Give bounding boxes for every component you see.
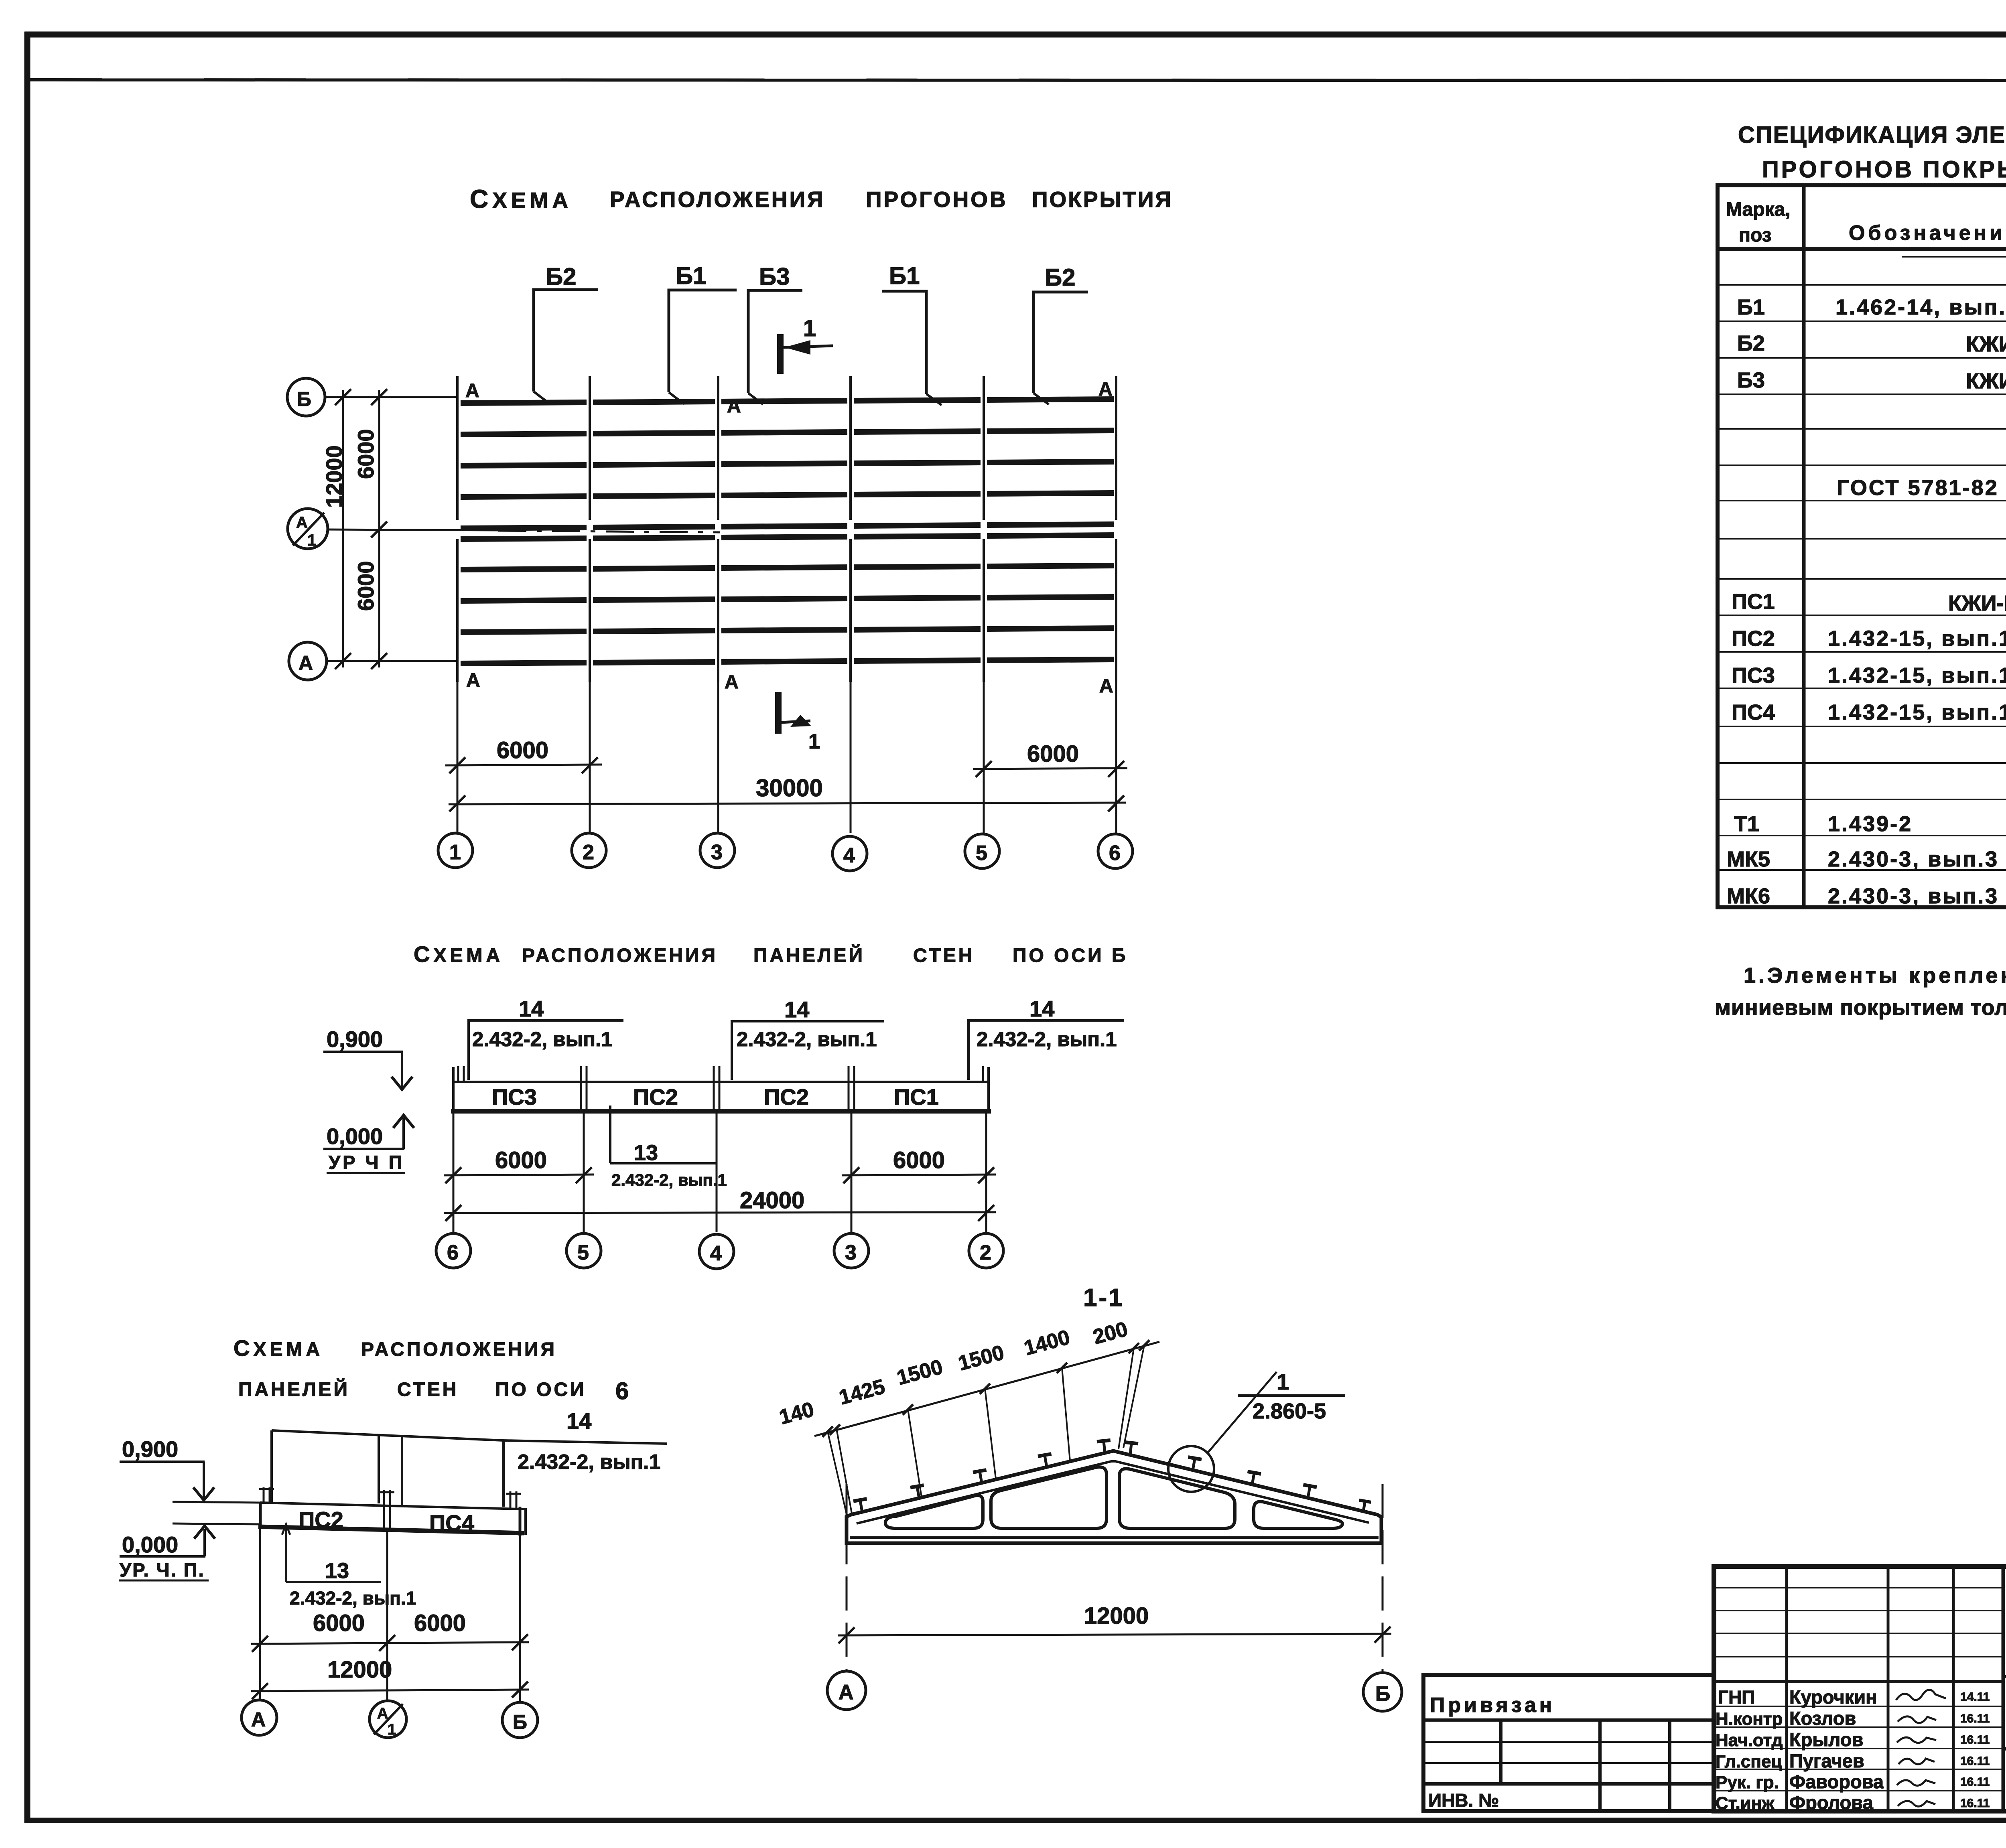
sloped dim ticks [822, 1340, 1149, 1437]
svg-text:4: 4 [710, 1242, 722, 1265]
node 13 leader [285, 1525, 287, 1582]
axis bubble B [502, 1702, 538, 1738]
axis stem 1 [457, 682, 459, 833]
svg-text:ПО ОСИ Б: ПО ОСИ Б [1013, 945, 1128, 966]
tb mid rule [2003, 1747, 2006, 1751]
bottom dim 6000 right [973, 768, 1127, 769]
svg-text:1: 1 [449, 841, 461, 864]
header bottom rule 2 [1902, 256, 2006, 258]
svg-text:14: 14 [784, 997, 809, 1022]
attachment rule under label [1423, 1718, 1714, 1722]
SEC:TITLEBLOCK [1423, 1566, 2006, 1813]
tb vertical persons [1785, 1566, 1788, 1811]
table outer box [1718, 185, 2006, 907]
svg-text:6000: 6000 [353, 561, 378, 611]
svg-text:Б: Б [1375, 1682, 1390, 1706]
tb staff area top [1714, 1680, 2003, 1683]
band right step [520, 1509, 526, 1535]
joint drop lines [260, 1528, 520, 1702]
svg-text:Б1: Б1 [676, 262, 707, 289]
svg-text:ПС3: ПС3 [492, 1084, 537, 1110]
svg-text:3: 3 [711, 841, 723, 864]
purlin row 6 [461, 535, 1114, 539]
band end left [259, 1503, 262, 1527]
svg-text:13: 13 [325, 1559, 349, 1583]
level line stub top [173, 1502, 260, 1503]
svg-text:3: 3 [845, 1241, 857, 1264]
header bottom rule [1718, 247, 2006, 251]
axis line A [327, 660, 456, 662]
svg-text:Обозначение: Обозначение [1849, 221, 2006, 245]
grid line axis 4 [849, 376, 852, 682]
grid line axis 2 [589, 376, 591, 682]
svg-text:ПС2: ПС2 [764, 1084, 809, 1110]
tb upper thin rows [1714, 1588, 2003, 1657]
axis line A1 dash-dot [328, 529, 498, 530]
svg-text:Н.контр: Н.контр [1716, 1709, 1783, 1729]
svg-text:30000: 30000 [756, 775, 823, 801]
svg-text:16.11: 16.11 [1960, 1797, 1990, 1810]
axis stem 6 [1115, 682, 1117, 833]
dim 24000 [444, 1212, 996, 1213]
svg-text:А: А [839, 1681, 854, 1704]
purlin row 1 [461, 399, 1114, 403]
purlin row 10 [461, 659, 1114, 663]
purlin mark B1 leader 2 [882, 291, 926, 394]
band end left [452, 1067, 455, 1112]
svg-text:поз: поз [1739, 225, 1772, 246]
axis bubble B [1363, 1673, 1402, 1711]
axis bubble A1 [370, 1701, 406, 1738]
svg-text:СХЕМА: СХЕМА [233, 1335, 323, 1361]
axis stem 5 [983, 682, 985, 833]
svg-text:2: 2 [583, 841, 594, 864]
SEC:ELEV6 [119, 1335, 667, 1738]
svg-text:СПЕЦИФИКАЦИЯ ЭЛЕМЕНТОВ К СХЕ: СПЕЦИФИКАЦИЯ ЭЛЕМЕНТОВ К СХЕМАМ РАСПОЛОЖ… [1738, 122, 2006, 148]
svg-text:12000: 12000 [321, 445, 347, 508]
svg-text:КЖИ-ПС1: КЖИ-ПС1 [1948, 591, 2006, 615]
svg-text:6000: 6000 [495, 1147, 547, 1173]
sloped dim line [814, 1342, 1159, 1436]
svg-text:Марка,: Марка, [1726, 199, 1791, 220]
svg-text:ПС2: ПС2 [298, 1507, 343, 1532]
svg-text:1.432-15, вып.1: 1.432-15, вып.1 [1828, 700, 2006, 724]
truss bottom chord inner line [850, 1536, 1379, 1539]
svg-text:1.462-14, вып.1: 1.462-14, вып.1 [1835, 295, 2006, 319]
joint posts right [506, 1491, 521, 1508]
svg-text:4: 4 [843, 844, 855, 867]
band end right [519, 1507, 522, 1536]
purlin row 4 [461, 493, 1114, 497]
dim 6000 pair [251, 1642, 529, 1644]
svg-text:6000: 6000 [893, 1147, 945, 1173]
svg-text:Фаворова: Фаворова [1789, 1771, 1884, 1792]
truss end drop lines [846, 1484, 848, 1670]
svg-text:СТЕН: СТЕН [913, 945, 975, 966]
svg-text:6: 6 [615, 1377, 629, 1404]
svg-text:СТЕН: СТЕН [397, 1379, 459, 1400]
section mark 1 bottom [775, 692, 782, 734]
svg-text:А: А [727, 396, 741, 417]
axis bubbles 6-2 [436, 1233, 471, 1268]
svg-text:А: А [466, 670, 480, 691]
detail circle [1168, 1446, 1214, 1492]
svg-text:ПРОГОНОВ ПОКРЫТИЯ, ПАНЕЛЕЙ: ПРОГОНОВ ПОКРЫТИЯ, ПАНЕЛЕЙ СТЕН [1762, 156, 2006, 183]
wall band bottom [451, 1109, 991, 1114]
svg-text:ПС4: ПС4 [429, 1510, 474, 1536]
top second rule [25, 80, 2006, 81]
svg-text:Нач.отд: Нач.отд [1716, 1730, 1783, 1750]
purlin rows [461, 399, 1114, 663]
SEC:TRUSS [777, 1284, 1402, 1711]
svg-text:Б3: Б3 [759, 263, 790, 290]
border bottom [24, 1818, 2006, 1823]
svg-text:12000: 12000 [1084, 1603, 1149, 1629]
svg-text:2.432-2, вып.1: 2.432-2, вып.1 [472, 1028, 613, 1051]
svg-text:1.432-15, вып.1: 1.432-15, вып.1 [1828, 663, 2006, 688]
axis line B [325, 396, 456, 398]
svg-text:А: А [296, 514, 308, 531]
opening 1 [885, 1495, 983, 1528]
svg-text:6: 6 [447, 1241, 459, 1264]
purlin row 8 [461, 597, 1114, 601]
svg-text:13: 13 [634, 1141, 658, 1165]
svg-text:ПС1: ПС1 [894, 1084, 939, 1110]
svg-text:14: 14 [1029, 996, 1054, 1021]
SEC:ELEVB [323, 941, 1128, 1269]
svg-text:Б2: Б2 [1737, 331, 1765, 355]
opening 3 [1119, 1469, 1235, 1528]
svg-text:16.11: 16.11 [1960, 1712, 1990, 1725]
svg-text:А: А [725, 671, 739, 693]
svg-text:16.11: 16.11 [1960, 1775, 1990, 1789]
svg-text:А: А [465, 380, 479, 402]
axis bubble A [827, 1671, 866, 1710]
wall band top [260, 1503, 520, 1509]
svg-text:1-1: 1-1 [1083, 1284, 1124, 1312]
svg-text:1: 1 [808, 730, 820, 753]
grid line axis 1 [456, 376, 459, 682]
svg-text:А: А [1098, 379, 1113, 400]
dim 6000 left [444, 1175, 594, 1175]
purlin row 7 [461, 566, 1114, 570]
dim 6000 right [842, 1175, 996, 1175]
svg-text:А: А [1099, 676, 1113, 697]
wall band top [453, 1081, 989, 1083]
axis bubble A [242, 1700, 277, 1735]
axis stem 2 [589, 682, 591, 833]
svg-text:6000: 6000 [414, 1610, 466, 1636]
svg-text:0,900: 0,900 [122, 1436, 178, 1462]
border left [24, 32, 30, 1823]
purlin mark B2 leader [534, 290, 598, 392]
svg-text:А: А [251, 1708, 266, 1731]
node 14 leader line [272, 1430, 667, 1444]
tb staff row rules [1714, 1706, 2003, 1791]
purlin mark B1 leader [669, 290, 737, 392]
attachment verticals [1499, 1720, 1502, 1784]
axis stem 4 [850, 682, 852, 833]
dim 12000 [838, 1634, 1391, 1635]
grid line axis 3 [717, 376, 719, 682]
svg-text:Б: Б [513, 1711, 527, 1733]
svg-text:2.432-2, вып.1: 2.432-2, вып.1 [737, 1028, 877, 1051]
svg-text:Рук. гр.: Рук. гр. [1716, 1773, 1779, 1792]
svg-text:Б: Б [297, 388, 311, 410]
svg-text:2.860-5: 2.860-5 [1253, 1399, 1326, 1423]
section mark 1 top [777, 334, 784, 374]
projection lines [828, 1345, 1144, 1517]
svg-text:2.432-2, вып.1: 2.432-2, вып.1 [977, 1028, 1117, 1051]
bottom dim 30000 [449, 803, 1126, 804]
svg-text:Ст.инж: Ст.инж [1716, 1793, 1775, 1813]
vert dim line 12000 [342, 390, 344, 667]
purlin row 5 [461, 524, 1114, 528]
svg-text:5: 5 [976, 842, 987, 865]
svg-text:16.11: 16.11 [1960, 1755, 1990, 1768]
svg-text:6000: 6000 [1027, 741, 1079, 767]
truss top chord inner line [857, 1461, 1369, 1523]
svg-text:А: А [377, 1705, 388, 1722]
svg-text:ПС2: ПС2 [1732, 627, 1775, 651]
svg-text:ИНВ. №: ИНВ. № [1428, 1790, 1499, 1811]
node 13 leader [609, 1106, 611, 1163]
attachment thin rows [1423, 1741, 1714, 1743]
purlin row 9 [461, 628, 1114, 632]
joint drop lines [453, 1112, 986, 1232]
opening 2 [991, 1467, 1107, 1528]
table row rules [1718, 285, 2006, 870]
svg-text:ПОКРЫТИЯ: ПОКРЫТИЯ [1032, 187, 1173, 212]
opening 4 [1254, 1501, 1342, 1528]
svg-text:Пугачев: Пугачев [1789, 1750, 1864, 1771]
svg-text:16.11: 16.11 [1960, 1733, 1990, 1747]
band end right [987, 1067, 990, 1112]
svg-text:миниевым покрытием толщиной: миниевым покрытием толщиной 250 мкм. [1715, 996, 2006, 1020]
svg-text:2.430-3, вып.3: 2.430-3, вып.3 [1828, 884, 1999, 908]
svg-text:ПС3: ПС3 [1732, 663, 1775, 688]
svg-text:ПС4: ПС4 [1732, 700, 1775, 724]
svg-text:А: А [298, 652, 313, 674]
svg-text:2.432-2, вып.1: 2.432-2, вып.1 [518, 1450, 660, 1474]
svg-text:Крылов: Крылов [1789, 1729, 1863, 1750]
svg-text:1.432-15, вып.1: 1.432-15, вып.1 [1828, 627, 2006, 651]
svg-text:6000: 6000 [313, 1610, 365, 1636]
svg-text:ГОСТ 5781-82: ГОСТ 5781-82 [1837, 476, 1999, 500]
dim ticks left [335, 389, 351, 405]
svg-text:КЖИ-Б3: КЖИ-Б3 [1966, 369, 2006, 393]
table column line 2 [1802, 185, 1806, 907]
SEC:TABLE [1715, 122, 2006, 1020]
svg-text:УР Ч П: УР Ч П [329, 1152, 405, 1173]
svg-text:Б2: Б2 [1045, 264, 1076, 291]
attachment box [1423, 1675, 1714, 1811]
tb right top rule [2003, 1675, 2006, 1678]
dates [1960, 1690, 1990, 1810]
svg-text:Фролова: Фролова [1789, 1792, 1874, 1813]
truss outline [847, 1451, 1381, 1543]
svg-text:6000: 6000 [353, 429, 378, 479]
svg-text:2.430-3, вып.3: 2.430-3, вып.3 [1828, 847, 1999, 871]
bottom dim 6000 left [445, 765, 602, 765]
purlin rails on top chord [853, 1440, 1371, 1513]
purlin mark B2 leader 2 [1033, 292, 1088, 393]
svg-text:ПС1: ПС1 [1732, 590, 1775, 614]
svg-text:2.432-2, вып.1: 2.432-2, вып.1 [290, 1588, 416, 1609]
node 14 drops [270, 1430, 273, 1503]
svg-text:1.439-2: 1.439-2 [1828, 812, 1913, 836]
svg-text:Б1: Б1 [889, 262, 920, 289]
detail leader [1208, 1372, 1277, 1453]
svg-text:РАСПОЛОЖЕНИЯ: РАСПОЛОЖЕНИЯ [610, 187, 825, 212]
SEC:PLAN [287, 185, 1173, 871]
svg-text:14: 14 [519, 996, 544, 1021]
svg-text:0,900: 0,900 [327, 1026, 383, 1052]
vert dim line 6000s [378, 390, 380, 667]
svg-text:МК5: МК5 [1727, 847, 1770, 871]
svg-text:Гл.спец: Гл.спец [1716, 1752, 1782, 1771]
svg-text:Привязан: Привязан [1430, 1694, 1555, 1717]
svg-text:УР. Ч. П.: УР. Ч. П. [120, 1559, 205, 1580]
svg-text:Б3: Б3 [1737, 368, 1765, 392]
svg-text:СХЕМА: СХЕМА [470, 185, 572, 213]
joint posts [458, 1066, 983, 1111]
svg-text:МК6: МК6 [1727, 884, 1770, 908]
svg-text:ПАНЕЛЕЙ: ПАНЕЛЕЙ [238, 1378, 350, 1400]
svg-text:1: 1 [803, 315, 816, 341]
svg-text:ПАНЕЛЕЙ: ПАНЕЛЕЙ [753, 944, 865, 966]
axis circle A [289, 642, 327, 680]
main title block box [1714, 1566, 2006, 1811]
purlin mark B3 leader [748, 290, 802, 393]
axis stem 3 [717, 682, 719, 833]
signatures [1896, 1690, 1946, 1806]
wall band bottom [258, 1527, 524, 1533]
svg-text:2.432-2, вып.1: 2.432-2, вып.1 [611, 1170, 727, 1189]
svg-text:ПС2: ПС2 [633, 1084, 678, 1110]
joint posts left [259, 1487, 274, 1503]
svg-text:Б2: Б2 [546, 263, 577, 290]
svg-text:6000: 6000 [497, 737, 548, 763]
axis circle B [287, 378, 325, 416]
dim 12000 [251, 1690, 529, 1691]
attachment thick row [1423, 1782, 1714, 1786]
svg-text:Курочкин: Курочкин [1789, 1686, 1877, 1708]
axis circle A1 [288, 509, 328, 549]
svg-text:24000: 24000 [740, 1187, 804, 1213]
svg-text:0,000: 0,000 [122, 1532, 178, 1557]
svg-text:14: 14 [566, 1408, 591, 1434]
svg-text:6: 6 [1109, 842, 1121, 865]
svg-text:ПО ОСИ: ПО ОСИ [495, 1379, 587, 1400]
border top [24, 32, 2006, 38]
svg-text:Т1: Т1 [1734, 812, 1759, 836]
svg-text:2: 2 [980, 1241, 991, 1264]
grid line axis 5 [983, 376, 985, 682]
svg-text:Козлов: Козлов [1789, 1708, 1856, 1729]
joint posts mid [380, 1490, 394, 1532]
svg-text:РАСПОЛОЖЕНИЯ: РАСПОЛОЖЕНИЯ [361, 1339, 557, 1360]
level line stub bottom [173, 1523, 260, 1524]
svg-text:Б1: Б1 [1737, 295, 1765, 319]
purlin row 2 [461, 430, 1114, 434]
grid line axis 6 [1115, 376, 1117, 682]
svg-text:КЖИ-Б2: КЖИ-Б2 [1966, 332, 2006, 356]
svg-text:1: 1 [307, 531, 316, 549]
svg-text:ПРОГОНОВ: ПРОГОНОВ [866, 187, 1008, 212]
svg-text:1.Элементы крепления: 1.Элементы крепления защитить от коррози… [1744, 964, 2006, 988]
svg-text:1: 1 [1277, 1369, 1289, 1394]
svg-text:14.11: 14.11 [1960, 1690, 1990, 1704]
svg-text:ГНП: ГНП [1718, 1687, 1755, 1708]
axis bubbles 1-6 [438, 833, 473, 868]
purlin row 3 [461, 462, 1114, 466]
svg-text:0,000: 0,000 [327, 1124, 383, 1149]
svg-text:5: 5 [577, 1241, 589, 1264]
svg-text:1: 1 [388, 1721, 396, 1738]
svg-text:РАСПОЛОЖЕНИЯ: РАСПОЛОЖЕНИЯ [522, 945, 718, 966]
svg-text:12000: 12000 [327, 1657, 392, 1683]
svg-text:СХЕМА: СХЕМА [414, 941, 504, 967]
